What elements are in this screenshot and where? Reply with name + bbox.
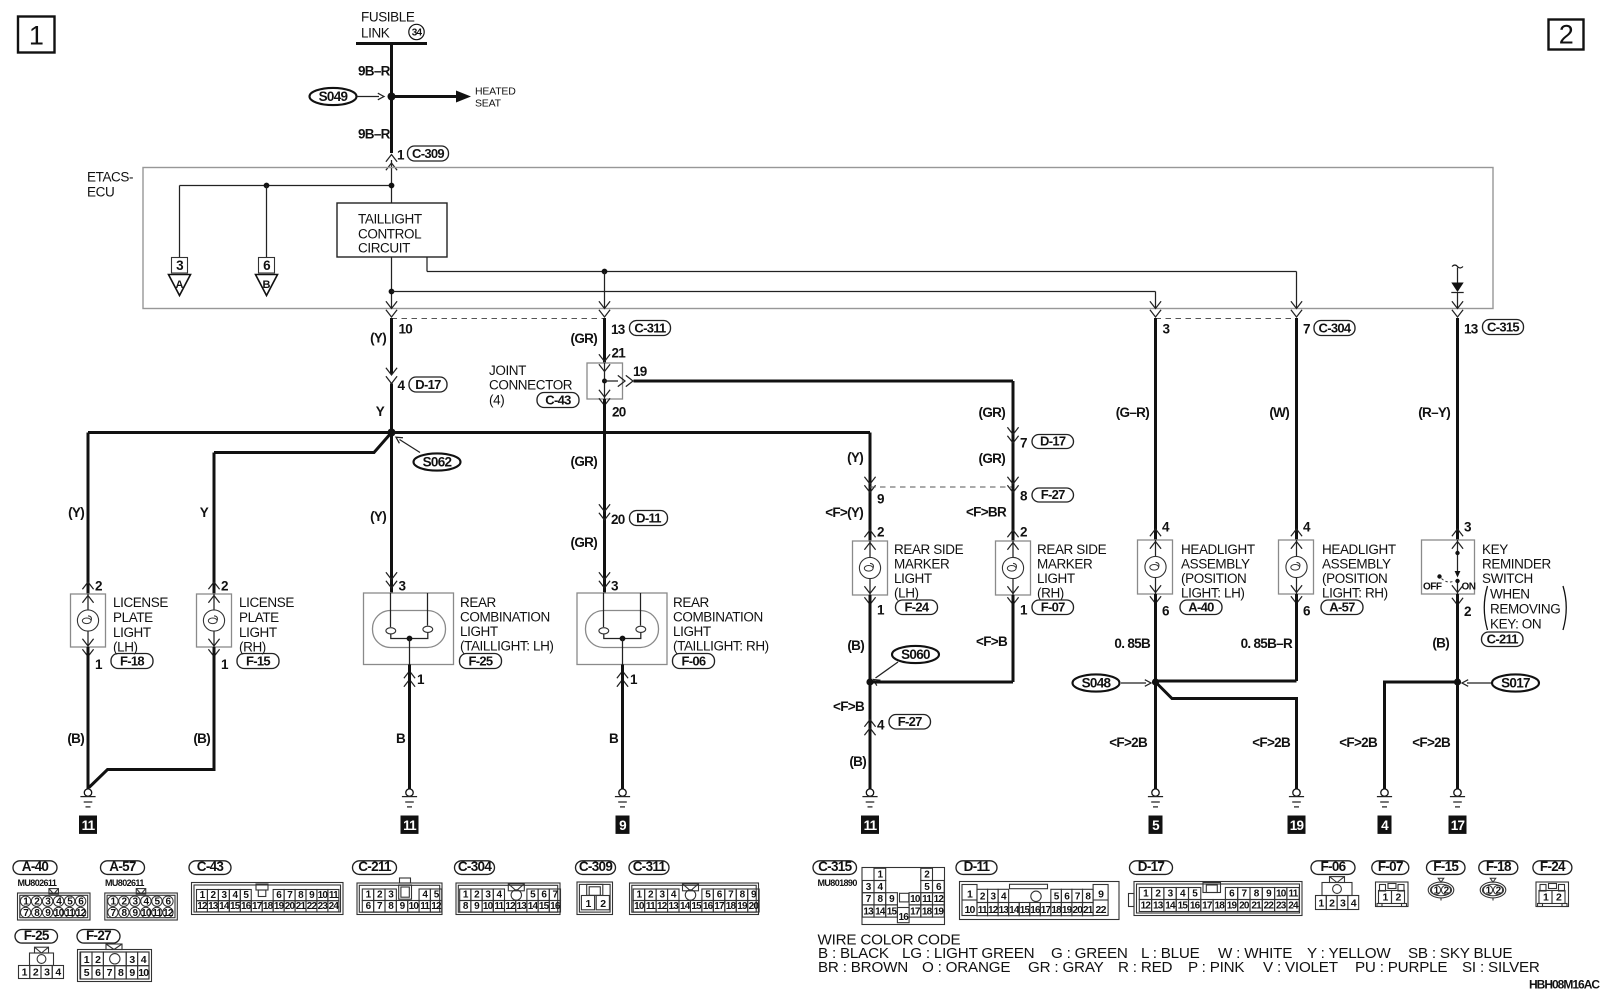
page marker 2 — [1549, 20, 1584, 50]
ground 9 rear combination RH — [619, 789, 626, 796]
wire (W) to headlight RH — [1295, 318, 1298, 540]
svg-text:16: 16 — [241, 901, 252, 912]
svg-text:11: 11 — [978, 905, 988, 916]
svg-text:<F>(Y): <F>(Y) — [825, 505, 863, 520]
svg-text:WHEN: WHEN — [1490, 587, 1530, 602]
svg-text:15: 15 — [539, 901, 550, 912]
svg-text:12: 12 — [988, 905, 999, 916]
svg-text:20: 20 — [611, 512, 625, 527]
svg-text:3: 3 — [1163, 322, 1171, 337]
wire to heated seat — [392, 95, 457, 98]
svg-text:<F>2B: <F>2B — [1339, 735, 1378, 750]
svg-text:(B): (B) — [67, 731, 84, 746]
svg-text:13: 13 — [208, 901, 219, 912]
svg-text:C-309: C-309 — [579, 859, 612, 874]
svg-text:LIGHT: LIGHT — [460, 624, 498, 639]
svg-text:C-304: C-304 — [1319, 320, 1352, 335]
svg-text:D-17: D-17 — [1040, 433, 1066, 448]
splice S049 — [310, 88, 357, 105]
svg-text:ECU: ECU — [87, 185, 114, 200]
wire marker RH to splice S060 — [870, 681, 1013, 684]
svg-text:12: 12 — [1141, 901, 1152, 912]
node on internal bus — [264, 183, 270, 189]
svg-text:SI : SILVER: SI : SILVER — [1462, 959, 1540, 976]
wire <F>2B splice S048 to ground 5 — [1154, 682, 1157, 790]
ground 5 headlight LH — [1152, 789, 1159, 796]
svg-text:(B): (B) — [1432, 636, 1449, 651]
svg-text:SEAT: SEAT — [475, 98, 502, 110]
connector table C-304 — [455, 861, 495, 875]
svg-text:LIGHT: LIGHT — [894, 571, 932, 586]
svg-text:F-15: F-15 — [1433, 859, 1459, 874]
connector table C-315 — [813, 861, 857, 875]
svg-text:F-07: F-07 — [1041, 599, 1065, 614]
wire 9B-R from fusible link — [390, 44, 393, 154]
node branch to C-311 output — [602, 269, 608, 275]
svg-text:COMBINATION: COMBINATION — [673, 610, 763, 625]
internal wire to outputs A and B — [180, 185, 392, 187]
svg-text:OFF: OFF — [1423, 582, 1442, 593]
node branch to pin 3 output — [389, 289, 395, 295]
svg-text:ETACS-: ETACS- — [87, 170, 133, 185]
svg-text:REAR SIDE: REAR SIDE — [1037, 542, 1107, 557]
svg-text:10: 10 — [409, 901, 420, 912]
ETACS-ECU block — [143, 168, 1493, 309]
splice junction S062 node — [388, 429, 396, 437]
svg-text:MARKER: MARKER — [894, 557, 950, 572]
svg-text:11: 11 — [403, 818, 417, 833]
svg-text:F-24: F-24 — [905, 599, 930, 614]
svg-text:23: 23 — [318, 901, 329, 912]
svg-text:11: 11 — [82, 818, 96, 833]
splice S017 node — [1454, 678, 1461, 685]
svg-text:(GR): (GR) — [571, 535, 598, 550]
svg-text:1: 1 — [417, 672, 425, 687]
svg-text:LINK: LINK — [361, 26, 390, 41]
svg-text:20: 20 — [1072, 905, 1083, 916]
svg-text:21: 21 — [1083, 905, 1094, 916]
svg-text:23: 23 — [1276, 901, 1287, 912]
svg-text:11: 11 — [494, 901, 504, 912]
main junction bus wire — [88, 431, 870, 434]
output terminal 6 / B — [259, 258, 275, 274]
svg-text:34: 34 — [412, 28, 423, 39]
svg-text:Y: Y — [376, 404, 385, 419]
svg-text:11: 11 — [420, 901, 430, 912]
svg-text:COMBINATION: COMBINATION — [460, 610, 550, 625]
svg-text:PLATE: PLATE — [113, 610, 153, 625]
svg-text:(R–Y): (R–Y) — [1418, 405, 1450, 420]
wire 0.85B headlight LH to splice S048 — [1154, 594, 1157, 682]
license plate light LH — [71, 594, 106, 647]
svg-text:0. 85B–R: 0. 85B–R — [1241, 636, 1293, 651]
svg-text:20: 20 — [1239, 901, 1250, 912]
svg-text:<F>2B: <F>2B — [1252, 735, 1291, 750]
ground 11 license plate lights — [84, 789, 91, 796]
diode for key reminder output — [1452, 265, 1463, 268]
svg-text:16: 16 — [1030, 905, 1041, 916]
svg-text:MU802611: MU802611 — [18, 878, 57, 888]
connector F-07 — [1032, 600, 1074, 615]
rear combination light LH — [364, 593, 454, 665]
svg-text:<F>BR: <F>BR — [966, 505, 1007, 520]
svg-text:18: 18 — [263, 901, 274, 912]
svg-text:(GR): (GR) — [571, 454, 598, 469]
svg-text:24: 24 — [329, 901, 340, 912]
svg-text:F-25: F-25 — [469, 653, 493, 668]
connector table C-43 — [189, 861, 231, 875]
svg-text:14: 14 — [1165, 901, 1176, 912]
svg-text:13: 13 — [611, 322, 626, 337]
svg-text:11: 11 — [329, 890, 339, 901]
connector table C-309 — [576, 861, 616, 875]
connector table F-27 — [77, 930, 120, 944]
svg-text:B: B — [396, 731, 406, 746]
svg-text:<F>B: <F>B — [976, 634, 1008, 649]
svg-text:19: 19 — [1227, 901, 1238, 912]
svg-text:(B): (B) — [847, 638, 864, 653]
svg-text:BR : BROWN: BR : BROWN — [818, 959, 908, 976]
ground 19 headlight RH — [1293, 789, 1300, 796]
svg-text:10: 10 — [138, 967, 149, 979]
svg-text:17: 17 — [714, 901, 725, 912]
svg-text:HEATED: HEATED — [475, 86, 516, 98]
node at main feed — [389, 183, 395, 189]
svg-text:17: 17 — [1041, 905, 1052, 916]
svg-text:(B): (B) — [193, 731, 210, 746]
connector F-24 — [896, 600, 938, 615]
output terminal 3 / A — [172, 258, 188, 274]
svg-text:S048: S048 — [1082, 676, 1112, 691]
svg-text:15: 15 — [691, 901, 702, 912]
svg-text:F-18: F-18 — [120, 653, 144, 668]
svg-text:13: 13 — [863, 906, 874, 917]
key reminder switch — [1422, 540, 1475, 594]
headlight assembly position LH — [1138, 540, 1173, 594]
svg-text:F-27: F-27 — [86, 928, 111, 943]
node: heated seat branch junction — [388, 93, 396, 101]
svg-text:LIGHT: RH): LIGHT: RH) — [1322, 586, 1388, 601]
svg-text:P : PINK: P : PINK — [1188, 959, 1244, 976]
svg-text:18: 18 — [726, 901, 737, 912]
svg-text:1: 1 — [877, 603, 885, 618]
svg-text:S049: S049 — [319, 89, 348, 104]
svg-text:15: 15 — [1020, 905, 1031, 916]
license RH branch wire — [214, 433, 392, 453]
svg-text:19: 19 — [1290, 818, 1304, 833]
wire (Y) to license plate light LH — [87, 433, 90, 595]
svg-text:(LH): (LH) — [894, 586, 919, 601]
connector C-211 — [1482, 632, 1524, 647]
svg-text:5: 5 — [1152, 818, 1160, 833]
connector F-06 — [673, 654, 715, 669]
svg-text:3: 3 — [399, 579, 407, 594]
connector table C-211 — [353, 861, 397, 875]
wire (GR) to rear combination light RH — [603, 399, 606, 593]
svg-text:2: 2 — [1559, 20, 1574, 50]
svg-text:13: 13 — [1153, 901, 1164, 912]
svg-text:MARKER: MARKER — [1037, 557, 1093, 572]
svg-text:(4): (4) — [489, 393, 504, 408]
svg-text:2: 2 — [1464, 604, 1471, 619]
svg-text:(B): (B) — [849, 754, 866, 769]
svg-text:3: 3 — [611, 579, 619, 594]
svg-text:(Y): (Y) — [370, 331, 386, 346]
wire (B) license LH to ground — [87, 647, 90, 790]
svg-text:ASSEMBLY: ASSEMBLY — [1322, 557, 1391, 572]
svg-text:(GR): (GR) — [571, 331, 598, 346]
svg-text:14: 14 — [1009, 905, 1020, 916]
wire Y to license plate light RH — [213, 453, 216, 595]
svg-text:A-40: A-40 — [1188, 599, 1214, 614]
connector table F-18 — [1479, 861, 1518, 875]
svg-text:11: 11 — [65, 908, 75, 919]
splice S017 — [1492, 674, 1539, 691]
svg-text:C-211: C-211 — [358, 859, 392, 874]
svg-text:ON: ON — [1462, 582, 1476, 593]
harness dashed link 9 to 8 — [870, 486, 1013, 488]
connector table F-07 — [1372, 861, 1409, 875]
connector table F-25 — [15, 930, 58, 944]
ground 17 key reminder switch — [1454, 789, 1461, 796]
wire 0.85B-R headlight RH — [1295, 594, 1298, 681]
svg-text:A-57: A-57 — [109, 859, 136, 874]
harness dashed link 10 to 13 — [392, 318, 605, 320]
ground 11 rear side markers — [866, 789, 873, 796]
svg-text:(Y): (Y) — [68, 505, 84, 520]
svg-text:LIGHT: LIGHT — [239, 625, 277, 640]
svg-text:9B–R: 9B–R — [358, 127, 391, 142]
svg-text:4: 4 — [398, 378, 406, 393]
svg-text:REMINDER: REMINDER — [1482, 557, 1551, 572]
svg-text:0. 85B: 0. 85B — [1114, 636, 1151, 651]
svg-text:19: 19 — [274, 901, 285, 912]
svg-text:14: 14 — [219, 901, 230, 912]
svg-text:GR : GRAY: GR : GRAY — [1028, 959, 1104, 976]
svg-text:21: 21 — [296, 901, 307, 912]
svg-text:17: 17 — [1202, 901, 1213, 912]
svg-text:22: 22 — [307, 901, 318, 912]
svg-text:D-17: D-17 — [415, 377, 441, 392]
rear side marker light RH — [996, 541, 1031, 595]
svg-text:F-25: F-25 — [24, 928, 50, 943]
svg-text:11: 11 — [152, 908, 162, 919]
svg-text:MU802611: MU802611 — [105, 878, 144, 888]
svg-text:14: 14 — [875, 906, 886, 917]
wire splice S048 to ground 19 — [1156, 682, 1297, 790]
svg-text:6: 6 — [1162, 604, 1170, 619]
svg-text:14: 14 — [680, 901, 691, 912]
wire <F>B splice S060 to ground — [869, 682, 872, 790]
svg-text:10: 10 — [54, 908, 65, 919]
svg-text:(POSITION: (POSITION — [1322, 571, 1387, 586]
svg-text:15: 15 — [1178, 901, 1189, 912]
svg-text:C-315: C-315 — [1487, 319, 1519, 334]
svg-text:KEY: KEY — [1482, 542, 1508, 557]
svg-text:6: 6 — [263, 258, 271, 273]
svg-text:(TAILLIGHT: RH): (TAILLIGHT: RH) — [673, 639, 769, 654]
svg-text:FUSIBLE: FUSIBLE — [361, 10, 415, 25]
svg-text:9: 9 — [877, 492, 884, 507]
svg-text:1: 1 — [397, 148, 405, 163]
svg-text:15: 15 — [230, 901, 241, 912]
svg-text:(POSITION: (POSITION — [1181, 571, 1246, 586]
wire (R-Y) to key reminder switch — [1456, 318, 1459, 540]
svg-text:F-27: F-27 — [898, 714, 922, 729]
svg-text:22: 22 — [1096, 904, 1107, 916]
svg-text:1: 1 — [630, 672, 638, 687]
svg-text:<F>2B: <F>2B — [1109, 735, 1148, 750]
svg-text:<F>B: <F>B — [833, 699, 865, 714]
svg-text:10: 10 — [318, 890, 329, 901]
svg-text:B: B — [263, 279, 271, 291]
svg-text:18: 18 — [922, 906, 933, 917]
svg-text:A-57: A-57 — [1329, 599, 1355, 614]
svg-text:10: 10 — [1276, 889, 1287, 900]
license plate light RH — [197, 594, 232, 647]
svg-text:ASSEMBLY: ASSEMBLY — [1181, 557, 1250, 572]
svg-text:D-11: D-11 — [964, 859, 991, 874]
svg-text:20: 20 — [285, 901, 296, 912]
svg-text:12: 12 — [431, 901, 442, 912]
svg-text:10: 10 — [399, 322, 413, 337]
svg-text:12: 12 — [657, 901, 668, 912]
svg-text:17: 17 — [1451, 818, 1465, 833]
splice S048 node — [1152, 678, 1159, 685]
svg-text:C-304: C-304 — [458, 859, 492, 874]
connector F-25 — [460, 654, 502, 669]
wire to output B — [266, 186, 268, 258]
svg-text:F-06: F-06 — [1321, 859, 1347, 874]
ETACS exit pin 7 C-304 — [1291, 301, 1302, 308]
svg-text:17: 17 — [252, 901, 263, 912]
svg-text:12: 12 — [197, 901, 208, 912]
svg-text:4: 4 — [1381, 818, 1389, 833]
connector A-57 — [1321, 600, 1363, 615]
svg-text:F-06: F-06 — [682, 653, 706, 668]
wire (Y) to rear side marker LH — [869, 433, 872, 542]
svg-text:JOINT: JOINT — [489, 363, 526, 378]
svg-text:F-18: F-18 — [1486, 859, 1512, 874]
svg-text:9B–R: 9B–R — [358, 64, 391, 79]
ground 11 rear combination LH — [406, 789, 413, 796]
svg-text:2: 2 — [221, 579, 228, 594]
svg-text:F-07: F-07 — [1378, 859, 1403, 874]
svg-text:15: 15 — [887, 906, 898, 917]
svg-text:16: 16 — [1190, 901, 1201, 912]
svg-text:10: 10 — [483, 901, 494, 912]
svg-text:17: 17 — [910, 906, 921, 917]
svg-text:10: 10 — [964, 904, 975, 916]
svg-text:20: 20 — [749, 901, 760, 912]
svg-text:SWITCH: SWITCH — [1482, 571, 1533, 586]
svg-text:1: 1 — [29, 21, 44, 51]
svg-text:C-43: C-43 — [197, 859, 225, 874]
wire (GR) from C-311 to joint connector — [603, 318, 606, 363]
svg-text:13: 13 — [517, 901, 528, 912]
ETACS exit pin 10 — [386, 301, 397, 308]
harness dashed link 3 to 7 — [1156, 318, 1297, 320]
wire taillight circuit output centre — [391, 257, 393, 308]
svg-text:(W): (W) — [1269, 405, 1289, 420]
svg-text:D-11: D-11 — [636, 510, 661, 525]
svg-text:21: 21 — [612, 346, 627, 361]
wire (B) marker LH to splice S060 — [869, 595, 872, 682]
svg-text:19: 19 — [633, 364, 647, 379]
svg-text:F-15: F-15 — [246, 653, 270, 668]
splice S062 — [414, 453, 461, 470]
joint connector exit pin 20 — [599, 390, 610, 397]
svg-text:4: 4 — [877, 718, 885, 733]
connector F-18 — [111, 654, 153, 669]
connector A-40 — [1180, 600, 1222, 615]
splice S048 — [1073, 674, 1120, 691]
svg-text:S060: S060 — [901, 647, 930, 662]
connector table A-40 — [13, 861, 57, 875]
svg-text:14: 14 — [528, 901, 539, 912]
svg-text:S062: S062 — [423, 455, 452, 470]
page marker 1 — [18, 17, 55, 53]
svg-text:8: 8 — [1020, 489, 1028, 504]
svg-text:CONNECTOR: CONNECTOR — [489, 378, 573, 393]
svg-text:7: 7 — [1020, 436, 1027, 451]
svg-text:2: 2 — [877, 525, 884, 540]
svg-text:13: 13 — [999, 905, 1010, 916]
svg-text:(G–R): (G–R) — [1116, 405, 1149, 420]
svg-text:1: 1 — [95, 657, 103, 672]
svg-text:4: 4 — [1303, 520, 1311, 535]
svg-text:9: 9 — [619, 818, 626, 833]
wire (Y) main feed — [390, 318, 393, 374]
wire to output A — [179, 186, 181, 258]
svg-text:A-40: A-40 — [22, 859, 49, 874]
svg-text:12: 12 — [76, 908, 87, 919]
svg-text:20: 20 — [612, 405, 626, 420]
wire (B) license RH to shared ground — [89, 647, 214, 788]
svg-text:10: 10 — [141, 908, 152, 919]
svg-text:(Y): (Y) — [370, 509, 386, 524]
svg-text:PLATE: PLATE — [239, 610, 279, 625]
svg-text:B: B — [609, 731, 619, 746]
svg-text:C-43: C-43 — [545, 392, 571, 407]
svg-text:HEADLIGHT: HEADLIGHT — [1181, 542, 1255, 557]
svg-text:A: A — [176, 279, 184, 291]
svg-text:1: 1 — [221, 657, 229, 672]
svg-text:C-315: C-315 — [818, 859, 852, 874]
svg-text:HBH08M16AC: HBH08M16AC — [1529, 978, 1600, 992]
svg-text:LICENSE: LICENSE — [113, 595, 168, 610]
ETACS exit pin 13 C-315 — [1452, 301, 1463, 308]
svg-text:LICENSE: LICENSE — [239, 595, 294, 610]
ground 4 — [1381, 789, 1388, 796]
rear side marker light LH — [853, 541, 888, 595]
svg-text:(GR): (GR) — [979, 451, 1006, 466]
svg-text:4: 4 — [1162, 520, 1170, 535]
svg-text:F-27: F-27 — [1041, 487, 1065, 502]
svg-text:REAR: REAR — [460, 595, 497, 610]
svg-text:11: 11 — [646, 901, 656, 912]
svg-text:C-309: C-309 — [412, 146, 444, 161]
svg-text:10: 10 — [910, 894, 921, 905]
svg-text:21: 21 — [1251, 901, 1262, 912]
svg-text:11: 11 — [922, 894, 932, 905]
svg-text:S017: S017 — [1501, 676, 1530, 691]
splice S060 — [892, 646, 939, 663]
wire (Y) to rear combination light LH — [390, 433, 393, 594]
svg-text:C-211: C-211 — [1487, 631, 1519, 646]
svg-text:2: 2 — [1020, 525, 1027, 540]
svg-text:6: 6 — [1303, 604, 1311, 619]
